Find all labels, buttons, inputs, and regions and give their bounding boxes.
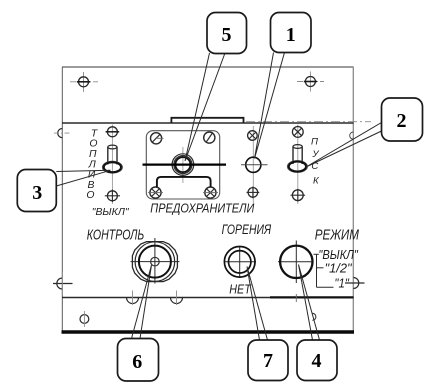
bold line through fuse holder — [143, 164, 227, 166]
panel right edge — [352, 67, 354, 333]
bottom strip hole right — [312, 313, 316, 320]
screw top-left — [70, 72, 98, 92]
svg-text:НЕТ: НЕТ — [229, 281, 251, 296]
horizontal dash-dot centerline right extension — [246, 121, 371, 123]
hole (callout 1 target) — [241, 157, 268, 172]
panel upper band line — [62, 122, 354, 124]
fuse bracket — [157, 177, 211, 187]
left toggle column centerline — [111, 125, 113, 205]
fuse holder (callout 5 target) — [172, 154, 194, 176]
svg-text:КОНТРОЛЬ: КОНТРОЛЬ — [87, 228, 145, 244]
toggle switch ПУСК (callout 2 target) — [287, 145, 307, 173]
bottom strip hole left — [80, 311, 89, 327]
leader to callout 3 — [56, 170, 110, 186]
callout box 3 — [17, 170, 56, 212]
fuse box centerline — [182, 147, 184, 183]
svg-text:РЕЖИМ: РЕЖИМ — [315, 228, 360, 244]
callout box 6 — [118, 339, 159, 382]
screw below left toggle — [105, 190, 120, 203]
panel left edge — [61, 67, 63, 333]
label ТОПЛИВО (vertical) — [86, 128, 97, 201]
panel top edge — [62, 66, 354, 68]
svg-text:"ВЫКЛ": "ВЫКЛ" — [92, 207, 130, 218]
screw below right toggle — [291, 189, 306, 202]
svg-text:2: 2 — [397, 110, 407, 132]
screw top-right — [297, 72, 324, 92]
leader to callout 7 — [247, 267, 268, 341]
middle hole column centerline — [252, 126, 254, 203]
svg-text:1: 1 — [286, 24, 296, 46]
panel bottom edge (bold) — [62, 330, 355, 333]
screw above right toggle — [292, 126, 303, 137]
svg-text:4: 4 — [312, 350, 322, 372]
svg-text:П: П — [311, 136, 318, 147]
leader to callout 2 — [306, 123, 382, 168]
callout box 1 — [271, 13, 312, 53]
screw above left toggle — [106, 127, 120, 137]
callout box 7 — [248, 340, 288, 381]
leader to callout 4 — [299, 265, 320, 341]
svg-text:ГОРЕНИЯ: ГОРЕНИЯ — [222, 221, 272, 237]
half-hole right edge lower — [345, 278, 365, 289]
svg-text:О: О — [86, 190, 94, 201]
svg-text:У: У — [311, 149, 319, 160]
knob КОНТРОЛЬ (callout 6 target) — [131, 238, 180, 284]
fuse box screw TL — [151, 133, 164, 144]
fuse box screw BL — [148, 187, 163, 198]
knob ГОРЕНИЯ (callout 7 target) — [224, 246, 256, 278]
callout box 4 — [297, 340, 337, 381]
label ПУСК (vertical) — [311, 136, 320, 186]
callout box 2 — [382, 98, 423, 141]
right toggle column centerline — [297, 125, 299, 205]
svg-text:3: 3 — [32, 182, 42, 204]
screw above hole 1 — [248, 131, 258, 141]
svg-text:5: 5 — [222, 24, 232, 46]
knob РЕЖИМ (callout 4 target) — [278, 241, 313, 303]
half-hole left edge upper — [54, 129, 71, 138]
half-hole left edge lower — [53, 272, 73, 295]
svg-text:ПРЕДОХРАНИТЕЛИ: ПРЕДОХРАНИТЕЛИ — [150, 200, 254, 215]
toggle switch ТОПЛИВО — [102, 145, 122, 173]
fuse box outline — [146, 131, 219, 199]
bottom strip notch left — [127, 291, 139, 306]
svg-text:7: 7 — [263, 350, 273, 372]
mode position bracket — [314, 254, 334, 287]
leader to callout 1 — [255, 53, 285, 159]
half-hole right edge upper — [350, 132, 354, 139]
leader to callout 5 — [185, 53, 225, 161]
fuse box screw TR — [204, 132, 215, 143]
svg-text:"1/2": "1/2" — [325, 261, 353, 276]
svg-text:"1": "1" — [334, 275, 350, 290]
panel lower band line — [62, 297, 354, 299]
screw below hole 1 — [247, 187, 260, 199]
fuse box screw BR — [203, 187, 218, 198]
svg-text:6: 6 — [132, 351, 142, 373]
cover plate tab — [171, 118, 243, 123]
leader to callout 6 — [132, 265, 152, 339]
bottom strip notch right — [171, 291, 183, 306]
callout box 5 — [207, 13, 247, 54]
